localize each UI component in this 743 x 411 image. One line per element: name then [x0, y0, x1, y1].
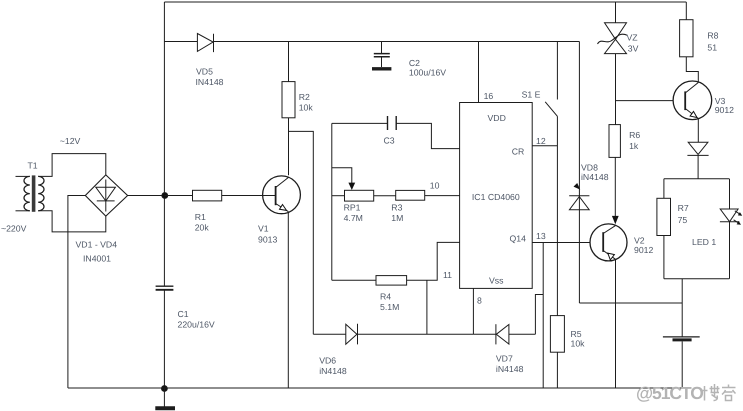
wire top rail	[164, 1, 686, 3]
IC U1 CD4060 box	[460, 103, 533, 289]
diode VD5	[197, 34, 213, 52]
LED1 box	[664, 178, 729, 180]
svg-text:@51CTO: @51CTO	[636, 383, 703, 403]
wire pin 16 VDD	[478, 42, 480, 103]
LED arrows	[734, 211, 740, 223]
diode VD8	[569, 197, 589, 210]
svg-text:~220V: ~220V	[1, 224, 27, 234]
svg-text:8: 8	[477, 296, 482, 306]
wire left vertical (top rail to C1)	[163, 2, 165, 286]
capacitor C2	[381, 42, 383, 54]
wire left loop vertical	[331, 123, 333, 280]
wire R3 to pin 10	[425, 195, 460, 197]
svg-text:10k: 10k	[299, 102, 314, 112]
wire bridge left vertex down to bottom rail	[68, 196, 85, 389]
svg-text:CR: CR	[512, 147, 525, 157]
svg-text:12: 12	[536, 136, 546, 146]
svg-text:VD5: VD5	[196, 66, 213, 76]
svg-text:Q14: Q14	[510, 234, 527, 244]
wire V3 emitter down	[697, 119, 699, 143]
transistor V3	[673, 81, 712, 120]
diode VD7	[473, 333, 535, 335]
bridge inner diode	[97, 180, 115, 212]
svg-text:R4: R4	[380, 292, 391, 302]
zener VZ	[615, 2, 617, 23]
wire bridge right vertex to node	[128, 195, 165, 197]
wire pin 12 CR	[532, 145, 557, 147]
svg-text:VD6: VD6	[319, 356, 336, 366]
svg-text:iN4148: iN4148	[496, 364, 524, 374]
svg-text:100u/16V: 100u/16V	[409, 68, 446, 78]
wire V3 base	[616, 100, 686, 102]
transformer T1 primary lead top	[16, 175, 30, 177]
svg-text:C2: C2	[409, 58, 420, 68]
diode VD6	[313, 333, 473, 335]
transformer T1 core	[32, 175, 36, 211]
svg-text:1k: 1k	[629, 141, 639, 151]
svg-text:75: 75	[678, 215, 688, 225]
svg-text:9012: 9012	[634, 245, 653, 255]
wire bottom rail	[68, 387, 682, 389]
svg-text:iN4148: iN4148	[319, 366, 347, 376]
svg-text:10k: 10k	[571, 338, 586, 348]
resistor R8	[685, 2, 687, 20]
wire V2 emitter down	[615, 259, 617, 388]
wire pin13 branch down to rail	[542, 243, 544, 389]
svg-text:R8: R8	[707, 31, 718, 41]
svg-text:RP1: RP1	[344, 202, 361, 212]
svg-text:R1: R1	[195, 212, 206, 222]
svg-text:C1: C1	[178, 309, 189, 319]
svg-text:VD1 - VD4: VD1 - VD4	[76, 240, 118, 250]
wire pin 8 Vss	[472, 288, 474, 334]
svg-text:~12V: ~12V	[60, 136, 81, 146]
svg-text:VD7: VD7	[496, 354, 513, 364]
transformer T1 secondary coil	[38, 176, 44, 210]
svg-text:220u/16V: 220u/16V	[178, 320, 215, 330]
transformer T1 primary coil	[24, 176, 30, 210]
resistor R6	[609, 125, 620, 158]
svg-text:C3: C3	[384, 136, 395, 146]
wire pin 13 Q14	[532, 242, 603, 244]
svg-text:R6: R6	[629, 130, 640, 140]
svg-text:9012: 9012	[715, 105, 734, 115]
svg-text:9013: 9013	[258, 235, 277, 245]
watermark	[636, 383, 736, 403]
svg-text:IN4148: IN4148	[196, 77, 224, 87]
capacitor C1 plates	[156, 285, 174, 287]
resistor R1	[164, 195, 192, 197]
glyph ke	[722, 385, 736, 401]
svg-text:V2: V2	[634, 235, 645, 245]
resistor R7	[657, 198, 671, 235]
svg-text:51: 51	[707, 43, 717, 53]
transistor V1	[263, 176, 301, 214]
svg-text:R2: R2	[299, 92, 310, 102]
resistor R2	[288, 42, 290, 82]
transistor V2	[590, 224, 627, 261]
svg-text:16: 16	[484, 91, 494, 101]
svg-text:R7: R7	[678, 203, 689, 213]
svg-text:10: 10	[430, 181, 440, 191]
potentiometer RP1	[332, 195, 345, 197]
resistor R4	[332, 279, 376, 281]
svg-text:VDD: VDD	[488, 113, 506, 123]
wire C1 bottom to rail	[163, 290, 165, 388]
resistor R5	[550, 316, 564, 353]
wire RP1 to R3	[374, 195, 396, 197]
svg-text:5.1M: 5.1M	[380, 302, 399, 312]
svg-text:IN4001: IN4001	[83, 254, 111, 264]
battery	[681, 279, 683, 337]
svg-text:LED 1: LED 1	[692, 237, 716, 247]
glyph bo	[702, 384, 720, 401]
svg-text:IC1 CD4060: IC1 CD4060	[472, 192, 520, 202]
ground	[163, 388, 165, 407]
wire R4 branch down to VD6 line	[426, 280, 428, 334]
svg-text:20k: 20k	[195, 222, 210, 232]
wire secondary top lead	[38, 154, 106, 177]
svg-text:3V: 3V	[628, 43, 639, 53]
resistor R3	[396, 190, 425, 200]
wire V1 emitter down	[287, 212, 289, 388]
bridge rectifier VD1-VD4 diamond	[85, 175, 127, 216]
wire secondary bottom lead	[38, 211, 106, 232]
svg-text:1M: 1M	[391, 213, 403, 223]
arrow on VD8 wire	[574, 183, 581, 190]
svg-text:R3: R3	[391, 202, 402, 212]
diode under V3	[688, 142, 708, 154]
potentiometer RP1 wiper arrow	[332, 168, 352, 184]
junction dot at ground	[162, 386, 168, 392]
wire VD5 rail	[164, 41, 579, 43]
svg-text:S1 E: S1 E	[522, 89, 541, 99]
svg-text:Vss: Vss	[489, 276, 504, 286]
transformer T1 primary lead bottom	[16, 210, 30, 212]
svg-text:VD8: VD8	[581, 163, 598, 173]
capacitor C3	[332, 122, 388, 124]
svg-text:T1: T1	[28, 161, 38, 171]
wire R4 right to pin 11 staircase	[407, 242, 460, 280]
svg-text:R5: R5	[571, 329, 582, 339]
svg-text:11: 11	[443, 270, 452, 280]
svg-text:iN4148: iN4148	[581, 172, 609, 182]
svg-text:V1: V1	[258, 224, 269, 234]
wire VD7 to pin13 branch	[535, 295, 543, 335]
svg-text:VZ: VZ	[627, 32, 639, 42]
LED 1	[720, 209, 738, 222]
wire R2 bottom to VD6 branch	[289, 131, 314, 334]
svg-text:4.7M: 4.7M	[344, 213, 363, 223]
svg-text:13: 13	[536, 231, 546, 241]
arrow into V2 collector	[612, 216, 619, 224]
wire VD8 bottom across to battery	[579, 302, 682, 304]
wire VD8 drop from rail	[578, 42, 580, 304]
switch S1	[556, 42, 558, 100]
node A junction dot	[162, 193, 168, 199]
